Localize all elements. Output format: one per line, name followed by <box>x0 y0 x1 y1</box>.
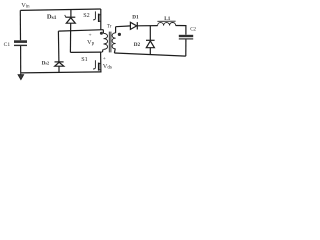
svg-text:L1: L1 <box>164 16 170 22</box>
svg-text:S1: S1 <box>81 57 87 63</box>
svg-text:D1: D1 <box>132 14 139 20</box>
svg-text:Tr: Tr <box>107 25 112 30</box>
svg-text:Vp: Vp <box>87 39 95 47</box>
svg-text:C1: C1 <box>4 42 11 48</box>
svg-text:Vds: Vds <box>103 63 112 70</box>
svg-text:D2: D2 <box>134 42 141 48</box>
svg-text:Vin: Vin <box>21 2 30 9</box>
svg-text:Ds1: Ds1 <box>47 14 57 21</box>
svg-text:+: + <box>103 56 106 62</box>
svg-text:C2: C2 <box>190 28 196 33</box>
svg-text:S2: S2 <box>83 13 89 19</box>
svg-text:+: + <box>89 32 92 38</box>
svg-text:Ds2: Ds2 <box>42 61 49 67</box>
